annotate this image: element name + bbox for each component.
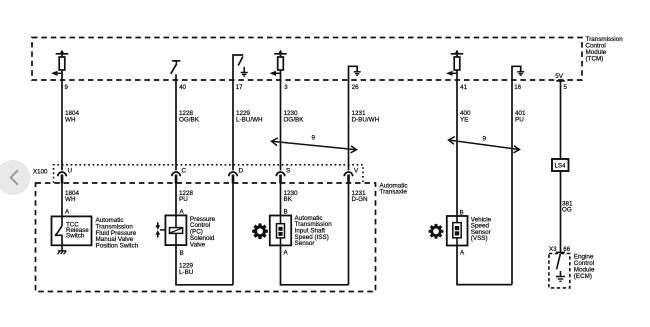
connector V	[344, 172, 352, 183]
svg-text:26: 26	[352, 84, 359, 91]
svg-text:Transaxle: Transaxle	[380, 189, 408, 196]
svg-text:3: 3	[284, 84, 288, 91]
wire 5V pin5 to LS4	[560, 80, 562, 159]
node B VSS	[460, 209, 464, 216]
svg-text:Position Switch: Position Switch	[96, 243, 139, 250]
svg-text:WH: WH	[65, 116, 76, 123]
TCM label	[586, 36, 624, 63]
svg-text:5: 5	[564, 84, 568, 91]
pin 41	[460, 84, 467, 91]
pin 40	[179, 84, 186, 91]
TCM internal pull-up resistor at pin 3	[270, 50, 287, 76]
svg-text:OG/BK: OG/BK	[284, 116, 305, 123]
wire 1230 BK below connector S	[280, 176, 282, 216]
svg-text:WH: WH	[65, 196, 76, 203]
svg-text:9: 9	[483, 135, 487, 142]
svg-text:D: D	[239, 167, 244, 174]
svg-text:Switch: Switch	[66, 233, 85, 240]
wire 1231 D-GN below connector V	[348, 176, 350, 285]
svg-text:B: B	[284, 209, 288, 216]
VSS sensor box	[447, 216, 468, 246]
svg-text:(ECM): (ECM)	[574, 273, 592, 280]
PC solenoid label	[190, 216, 216, 249]
ISS sensor label	[295, 215, 333, 247]
ECM internal ground	[556, 271, 565, 281]
wire VSS A loop to 401 PU	[457, 246, 512, 285]
5V label	[555, 73, 564, 80]
svg-text:PU: PU	[515, 116, 524, 123]
svg-text:B: B	[460, 209, 464, 216]
ground below TCC switch	[58, 245, 67, 254]
ECM terminal tick	[556, 251, 565, 253]
wire 1229 L-BU below connector D to solenoid loop	[232, 176, 234, 285]
pin 9	[65, 84, 69, 91]
svg-text:17: 17	[236, 84, 243, 91]
splice LS4 box	[552, 159, 569, 171]
node A TCC	[65, 209, 70, 216]
connector D	[229, 172, 237, 183]
VSS label	[471, 216, 492, 242]
svg-text:(VSS): (VSS)	[471, 235, 488, 242]
svg-text:L-BU: L-BU	[179, 269, 194, 276]
svg-text:A: A	[180, 209, 185, 216]
X100 label	[33, 169, 48, 176]
connector C	[172, 172, 180, 183]
svg-text:C: C	[182, 167, 187, 174]
TCM internal pull-up resistor at pin 9	[51, 50, 68, 76]
svg-text:5V: 5V	[555, 73, 564, 80]
connector X100 dotted boundary	[54, 165, 364, 183]
ECM label	[574, 254, 595, 280]
VSS gear icon	[426, 221, 447, 242]
Automatic Transaxle label	[380, 182, 408, 195]
TCM internal ground at pin 26	[349, 66, 361, 80]
svg-text:A: A	[65, 209, 70, 216]
connector S	[276, 172, 284, 183]
svg-text:D-GN: D-GN	[352, 196, 369, 203]
svg-text:Valve: Valve	[190, 241, 206, 248]
svg-text:S: S	[286, 167, 290, 174]
svg-text:B: B	[180, 250, 184, 257]
ISS sensor gear icon	[249, 220, 271, 242]
svg-text:A: A	[284, 250, 289, 257]
node A VSS	[460, 249, 465, 256]
ISS sensor box	[270, 216, 291, 246]
svg-text:X100: X100	[33, 169, 48, 176]
wire 1230 OG/BK pin3 to connector S	[280, 70, 282, 170]
ECM dashed box	[549, 254, 570, 288]
svg-text:40: 40	[179, 84, 186, 91]
wire solenoid B loop to connector D	[176, 245, 233, 285]
TCC switch description label	[96, 217, 139, 250]
TCM module box	[32, 38, 582, 81]
svg-text:V: V	[354, 167, 359, 174]
svg-text:9: 9	[65, 84, 69, 91]
svg-text:(TCM): (TCM)	[586, 55, 604, 62]
svg-text:Sensor: Sensor	[295, 240, 315, 247]
harness crossing 9 wires (left)	[272, 138, 357, 153]
svg-text:9: 9	[312, 135, 316, 142]
svg-text:PU: PU	[179, 196, 188, 203]
TCC Release Switch label	[66, 221, 89, 239]
ECM internal switch	[557, 254, 561, 269]
TCM internal pull-up resistor at pin 41	[446, 50, 463, 76]
node B PC solenoid	[180, 250, 184, 257]
node A ISS	[284, 250, 289, 257]
wire 400 YE pin41 to VSS	[456, 70, 458, 216]
svg-text:LS4: LS4	[555, 163, 567, 170]
carousel previous button overlay	[0, 160, 31, 195]
svg-text:A: A	[460, 249, 465, 256]
wire 401 PU pin16 to VSS loop	[511, 80, 513, 285]
Automatic Transaxle dashed box	[36, 183, 376, 292]
TCM internal switch at pin 40	[171, 61, 181, 81]
pin 26	[352, 84, 359, 91]
wire 1231 D-BU/WH pin26 to connector V	[348, 80, 350, 170]
node A PC solenoid	[180, 209, 185, 216]
pin 16	[514, 84, 521, 91]
svg-text:OG/BK: OG/BK	[179, 116, 200, 123]
svg-text:L-BU/WH: L-BU/WH	[236, 116, 263, 123]
svg-text:41: 41	[460, 84, 467, 91]
proportional valve arrows	[155, 222, 165, 237]
svg-text:OG: OG	[562, 207, 572, 214]
svg-text:U: U	[68, 167, 73, 174]
TCM internal switch-to-ground at pin 17	[233, 55, 248, 81]
pin 17	[236, 84, 243, 91]
harness crossing 9 wires (right)	[449, 137, 520, 153]
ECM connector X3 pin 66	[549, 246, 571, 253]
wire ISS A loop to connector V	[281, 245, 349, 284]
connector U	[58, 172, 66, 183]
wire 1228 PU below connector C	[175, 176, 177, 215]
pin 3	[284, 84, 288, 91]
wire 1804 WH pin9 to connector U	[61, 70, 63, 170]
pin 5	[564, 84, 568, 91]
svg-text:D-BU/WH: D-BU/WH	[352, 116, 380, 123]
wire 381 OG LS4 to ECM	[560, 171, 562, 254]
TCC release switch box	[52, 216, 92, 245]
wire 1229 L-BU/WH pin17 to connector D	[232, 80, 234, 170]
5V terminal tick at pin 5	[556, 80, 564, 82]
TCM internal ground at pin 16	[512, 66, 524, 80]
svg-text:16: 16	[514, 84, 521, 91]
node B ISS	[284, 209, 288, 216]
svg-text:BK: BK	[284, 196, 293, 203]
wire 1804 WH below connector U	[61, 176, 63, 216]
wire 1228 OG/BK pin40 to connector C	[175, 80, 177, 170]
PC solenoid valve box	[165, 215, 186, 245]
svg-text:X3: X3	[549, 246, 557, 253]
svg-text:YE: YE	[460, 116, 468, 123]
